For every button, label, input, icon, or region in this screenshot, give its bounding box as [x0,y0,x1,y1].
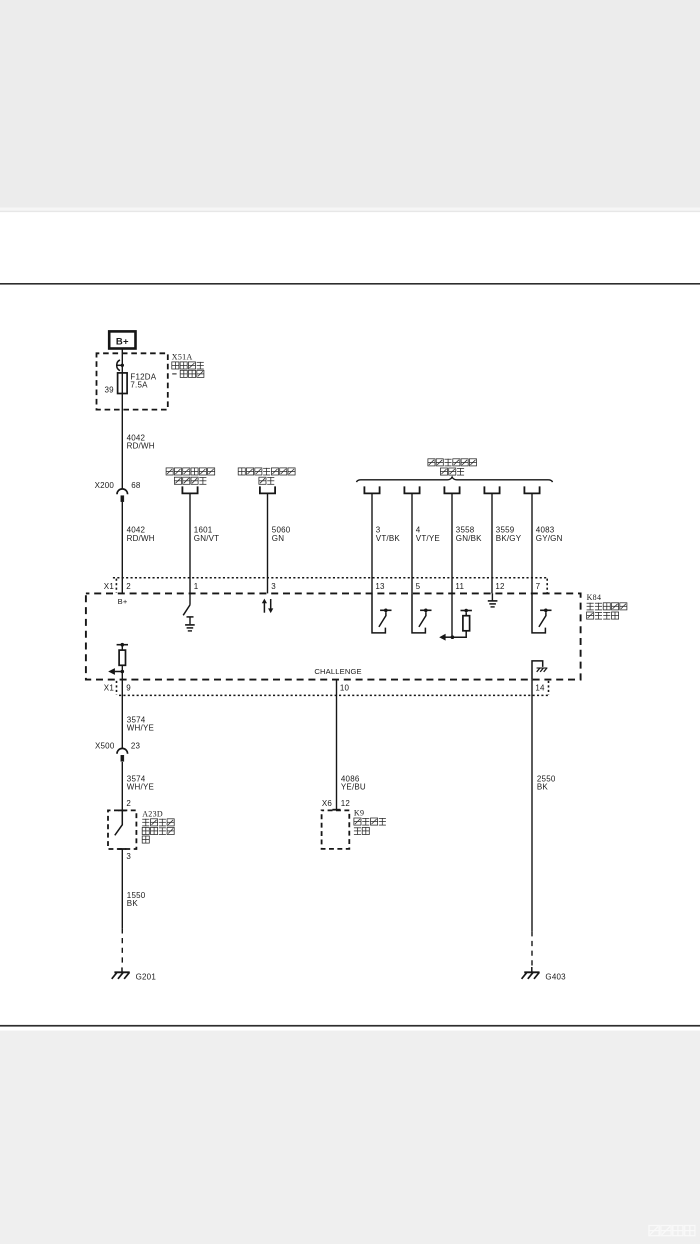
label 驾驶员车 [142,819,174,826]
wire CHALLENGE 4086 YE/BU [336,680,338,810]
wire 4042 RD/WH upper [121,394,123,489]
pin 12 [495,582,505,591]
off-page connector data [260,486,275,493]
wire 4 VT/YE [411,493,413,593]
pin 3 door latch [126,852,131,861]
pin 2 door latch [126,799,131,808]
connector X1 upper label [104,582,115,591]
svg-text:23: 23 [131,742,141,751]
svg-text:K84: K84 [587,593,602,602]
svg-text:BK: BK [537,783,549,792]
ground G403 [522,967,567,982]
svg-text:12: 12 [341,799,351,808]
wire 4083 GY/GN [531,493,533,593]
ground G201 [112,967,157,981]
off-page connector wire 3 [364,486,379,493]
fuse F12DA [118,373,128,394]
label 4042 RD/WH upper [127,433,155,450]
pin 13 [375,582,385,591]
svg-text:B+: B+ [116,337,129,348]
pin 7 [536,582,541,591]
label 电源模式电气线路图 [428,459,477,475]
connector X1 lower left cap [116,681,118,695]
svg-text:10: 10 [340,683,350,692]
svg-text:GN/BK: GN/BK [456,534,482,543]
pin 9 [126,683,131,692]
svg-text:5: 5 [416,582,421,591]
off-page connector wire 3558 [444,486,459,493]
label 控制模块 [587,612,619,619]
svg-text:GN/VT: GN/VT [194,534,219,543]
label 门锁闩总 [142,827,174,834]
svg-text:BK/GY: BK/GY [496,534,522,543]
svg-text:7.5A: 7.5A [130,381,148,390]
resistor inside K84 pin 11 [439,593,472,640]
connector X200 pin 68 [95,481,141,502]
label 4 VT/YE [416,526,440,543]
label F12DA 7.5A [130,372,156,389]
watermark 汽车之家 [649,1226,695,1236]
node B+ inside module [118,597,128,606]
switch A23D contacts [115,810,127,849]
svg-text:VT/BK: VT/BK [376,534,401,543]
bottom rule line [0,1025,700,1027]
label 3559 BK/GY [496,526,522,543]
svg-text:3: 3 [271,582,276,591]
label 2550 BK [537,774,556,791]
label 3 VT/BK [376,526,401,543]
module K84 dashed outline [86,593,581,679]
svg-text:X200: X200 [95,481,115,490]
label X51A [172,353,193,362]
wire 5060 GN [267,493,269,593]
svg-text:WH/YE: WH/YE [127,724,154,733]
svg-text:K9: K9 [354,809,364,818]
label 1550 BK [127,891,146,908]
svg-text:RD/WH: RD/WH [127,534,155,543]
pin 1 [194,582,199,591]
off-page connector wire 3559 [484,486,499,493]
brace power mode group [357,477,553,482]
power symbol B+ box [109,331,135,348]
label 无钥匙进入 [587,603,627,610]
pin 39 [105,386,115,395]
connector X1 lower right cap [548,681,550,695]
connector X1 upper left cap [115,579,117,593]
svg-text:39: 39 [105,386,115,395]
fuse clip [117,360,124,371]
svg-text:13: 13 [375,582,385,591]
svg-text:X1: X1 [104,582,115,591]
svg-text:1: 1 [194,582,199,591]
svg-text:14: 14 [535,683,545,692]
net CHALLENGE label [314,667,361,676]
svg-text:GY/GN: GY/GN [536,534,563,543]
switch inside K84 pin 1 [183,593,193,624]
header lower light strip [0,208,700,211]
svg-text:X1: X1 [104,683,115,692]
label A23D [142,810,163,819]
label 3558 GN/BK [456,526,482,543]
wire B+ to fuse [121,349,123,373]
svg-text:2: 2 [126,582,131,591]
label 转向柱锁定电气线路图 [166,468,215,484]
svg-text:12: 12 [495,582,505,591]
svg-text:B+: B+ [118,597,128,606]
connector X6 pin 12 [322,799,350,808]
label 4042 RD/WH lower [127,526,155,543]
connector X1 lower label [104,683,115,692]
ground inside K84 pin 12 [488,593,498,607]
connector X1 upper right cap [546,579,548,593]
wire 3 VT/BK [371,493,373,593]
svg-text:WH/YE: WH/YE [127,783,154,792]
label 1601 GN/VT [194,526,219,543]
wire 1550 BK dashed [121,928,123,966]
fuse inside K84 pin 9 [117,643,128,680]
svg-text:11: 11 [455,582,464,591]
switch inside K84 pin 13 [372,593,392,633]
junction arrow inside K84 pin 9 [108,668,124,675]
svg-text:VT/YE: VT/YE [416,534,440,543]
pin 10 [340,683,350,692]
wire 3559 BK/GY [491,493,493,593]
off-page connector steering [182,486,197,493]
label 3574 WH/YE upper [127,715,154,732]
svg-text:2: 2 [126,799,131,808]
svg-text:CHALLENGE: CHALLENGE [314,667,361,676]
svg-text:G403: G403 [545,973,566,982]
svg-text:X51A: X51A [172,353,193,362]
svg-text:7: 7 [536,582,541,591]
connector X1 lower dotted line [119,694,549,696]
label 3574 WH/YE lower [127,774,154,791]
svg-text:X500: X500 [95,742,115,751]
switch inside K84 pin 7 [532,593,552,633]
pin 3 [271,582,276,591]
chassis ground inside K84 pin 14 [532,661,547,680]
wire 2550 BK solid [531,680,533,932]
data arrows pin 3 [262,599,274,614]
connector X1 upper dotted line [113,577,547,579]
module K9 contact [332,809,340,811]
label 成 [142,836,149,843]
label 4083 GY/GN [536,526,563,543]
wire 3558 GN/BK [451,493,453,593]
pin 2 [126,582,131,591]
label 保险丝盒 [172,362,204,369]
svg-text:BK: BK [127,899,139,908]
label K9 [354,809,364,818]
svg-text:X6: X6 [322,799,333,808]
connector X500 pin 23 [95,742,141,762]
label 模块 [354,827,369,834]
module K9 dashed outline [322,810,350,849]
top gray header band [0,0,700,208]
header bottom hairline [0,211,700,212]
label 数据通信电气线路图 [238,468,295,484]
ground inside K84 pin 1 [185,625,195,631]
label 5060 GN [272,526,291,543]
svg-text:68: 68 [131,481,141,490]
svg-text:YE/BU: YE/BU [341,783,366,792]
pin 11 [455,582,464,591]
wire 4042 RD/WH lower [121,502,123,594]
switch A23D dashed outline [108,810,136,849]
label - 仪表板 [172,370,204,377]
svg-text:GN: GN [272,534,284,543]
off-page connector wire 4 [404,486,419,493]
switch inside K84 pin 5 [412,593,432,633]
pin 5 [416,582,421,591]
off-page connector wire 4083 [524,486,539,493]
svg-text:A23D: A23D [142,810,163,819]
wire 1550 BK solid [121,849,123,928]
pin 14 [535,683,545,692]
top rule line [0,283,700,285]
svg-text:9: 9 [126,683,131,692]
svg-text:RD/WH: RD/WH [127,442,155,451]
fusebox X51A dashed outline [97,353,168,409]
wire 2550 BK dashed [531,931,533,966]
wire 3574 WH/YE upper [121,680,123,749]
label 4086 YE/BU [341,774,366,791]
wire 1601 GN/VT [189,493,191,593]
svg-text:3: 3 [126,852,131,861]
wire 3574 WH/YE lower [121,762,123,811]
bottom gray footer band [0,1031,700,1244]
label K84 [587,593,602,602]
svg-text:G201: G201 [136,973,157,982]
label 车身控制 [354,818,386,825]
